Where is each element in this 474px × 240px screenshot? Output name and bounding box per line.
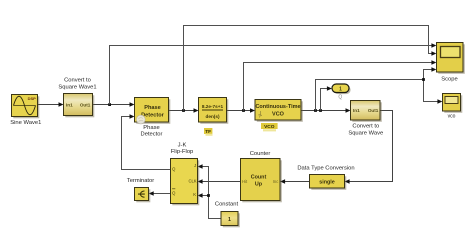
svg-text:Hit: Hit <box>242 179 248 184</box>
node: junction VCO output B <box>319 109 322 112</box>
display block vco <box>443 94 463 120</box>
svg-text:Q: Q <box>172 190 176 195</box>
svg-text:CLK: CLK <box>188 178 196 183</box>
subsystem block Convert to Square Wave <box>348 101 383 137</box>
svg-text:Counter: Counter <box>250 151 271 157</box>
counter block Counter <box>241 151 282 202</box>
node: junction PD output <box>182 109 185 112</box>
svg-text:Constant: Constant <box>215 202 239 208</box>
svg-text:K: K <box>193 192 196 197</box>
node: junction VCO output A <box>314 109 317 112</box>
svg-text:vco: vco <box>448 113 456 119</box>
wire: reference branch up to Scope input 1 <box>110 46 432 105</box>
svg-text:Inc: Inc <box>273 179 279 184</box>
wire: J-K Qbar to Terminator <box>153 193 171 195</box>
svg-text:Data Type Conversion: Data Type Conversion <box>297 165 354 171</box>
wire: VCO out to Convert to Square Wave <box>301 110 346 112</box>
wire: Convert out down to Data Type Conversion <box>349 111 393 182</box>
svg-text:den(s): den(s) <box>205 114 220 119</box>
wire: TF output branch up to Scope input 3 <box>244 63 432 111</box>
subsystem block Phase Detector <box>135 98 171 138</box>
svg-text:VCO: VCO <box>264 124 275 130</box>
svg-text:Q: Q <box>338 95 342 101</box>
label TF <box>204 128 212 134</box>
svg-text:Convert to: Convert to <box>64 77 91 83</box>
wire: VCO branch to Scope input 4 and vco display <box>316 70 438 111</box>
constant block Constant <box>215 202 240 228</box>
svg-text:J-K: J-K <box>178 143 187 149</box>
svg-text:Square Wave: Square Wave <box>348 130 383 136</box>
svg-text:Out1: Out1 <box>80 103 91 108</box>
svg-text:Square Wave1: Square Wave1 <box>58 84 96 90</box>
svg-text:TF: TF <box>205 129 211 135</box>
svg-text:Out1: Out1 <box>368 108 379 113</box>
svg-text:In1: In1 <box>353 108 360 113</box>
svg-text:1: 1 <box>228 217 231 223</box>
svg-text:VCO: VCO <box>272 111 285 117</box>
svg-text:J: J <box>194 163 196 168</box>
node: junction TF output <box>242 109 245 112</box>
svg-text:Scope: Scope <box>441 76 457 82</box>
svg-text:Phase: Phase <box>144 105 160 111</box>
wire: Convert1 out to Phase Detector in1 <box>93 104 131 106</box>
svg-text:8.2e-7s+1: 8.2e-7s+1 <box>202 104 224 109</box>
svg-text:In1: In1 <box>66 103 73 108</box>
wire: Counter Hit to J-K CLK <box>202 181 241 183</box>
svg-text:Convert to: Convert to <box>352 124 379 130</box>
wire: Phase Detector out to Transfer Fcn <box>169 110 195 112</box>
svg-text:Up: Up <box>255 181 263 187</box>
svg-text:Count: Count <box>251 174 267 180</box>
outport Q <box>332 84 351 101</box>
svg-text:Sine Wave1: Sine Wave1 <box>10 120 41 126</box>
wire: PD output branch over top to Scope input 2 <box>184 26 432 111</box>
wire: Constant to J-K J and K inputs <box>202 167 221 219</box>
watermark badge <box>136 115 145 124</box>
svg-text:Detector: Detector <box>141 132 163 138</box>
svg-text:Terminator: Terminator <box>127 178 154 184</box>
wire: J-K Q output to Phase Detector in2 <box>122 117 171 170</box>
label VCO <box>261 123 278 129</box>
data type conversion block <box>297 165 354 189</box>
wire: VCO branch to outport Q <box>321 89 328 111</box>
VCO block Continuous-Time VCO <box>255 100 303 132</box>
sine wave source block Sine Wave1 <box>10 95 41 126</box>
node: junction reference square wave <box>108 103 111 106</box>
wire: Sine Wave1 to Convert to Square Wave1 <box>38 104 60 106</box>
svg-text:DSP: DSP <box>28 96 37 101</box>
transfer function block TF <box>199 98 229 136</box>
svg-text:Q: Q <box>172 166 176 171</box>
wire: DTC out to Counter Inc <box>285 181 310 183</box>
node: junction J-K K input <box>207 194 210 197</box>
scope block Scope <box>437 43 465 83</box>
svg-text:single: single <box>319 180 335 186</box>
terminator block <box>127 178 154 202</box>
wire: Transfer Fcn out to VCO <box>227 110 251 112</box>
svg-text:Continuous-Time: Continuous-Time <box>255 104 300 110</box>
node: junction near scope <box>422 78 425 81</box>
subsystem block Convert to Square Wave1 <box>58 77 96 117</box>
svg-text:1: 1 <box>339 87 342 93</box>
svg-text:Flip-Flop: Flip-Flop <box>171 149 194 155</box>
svg-text:Phase: Phase <box>143 125 159 131</box>
J-K flip-flop block <box>171 143 200 206</box>
